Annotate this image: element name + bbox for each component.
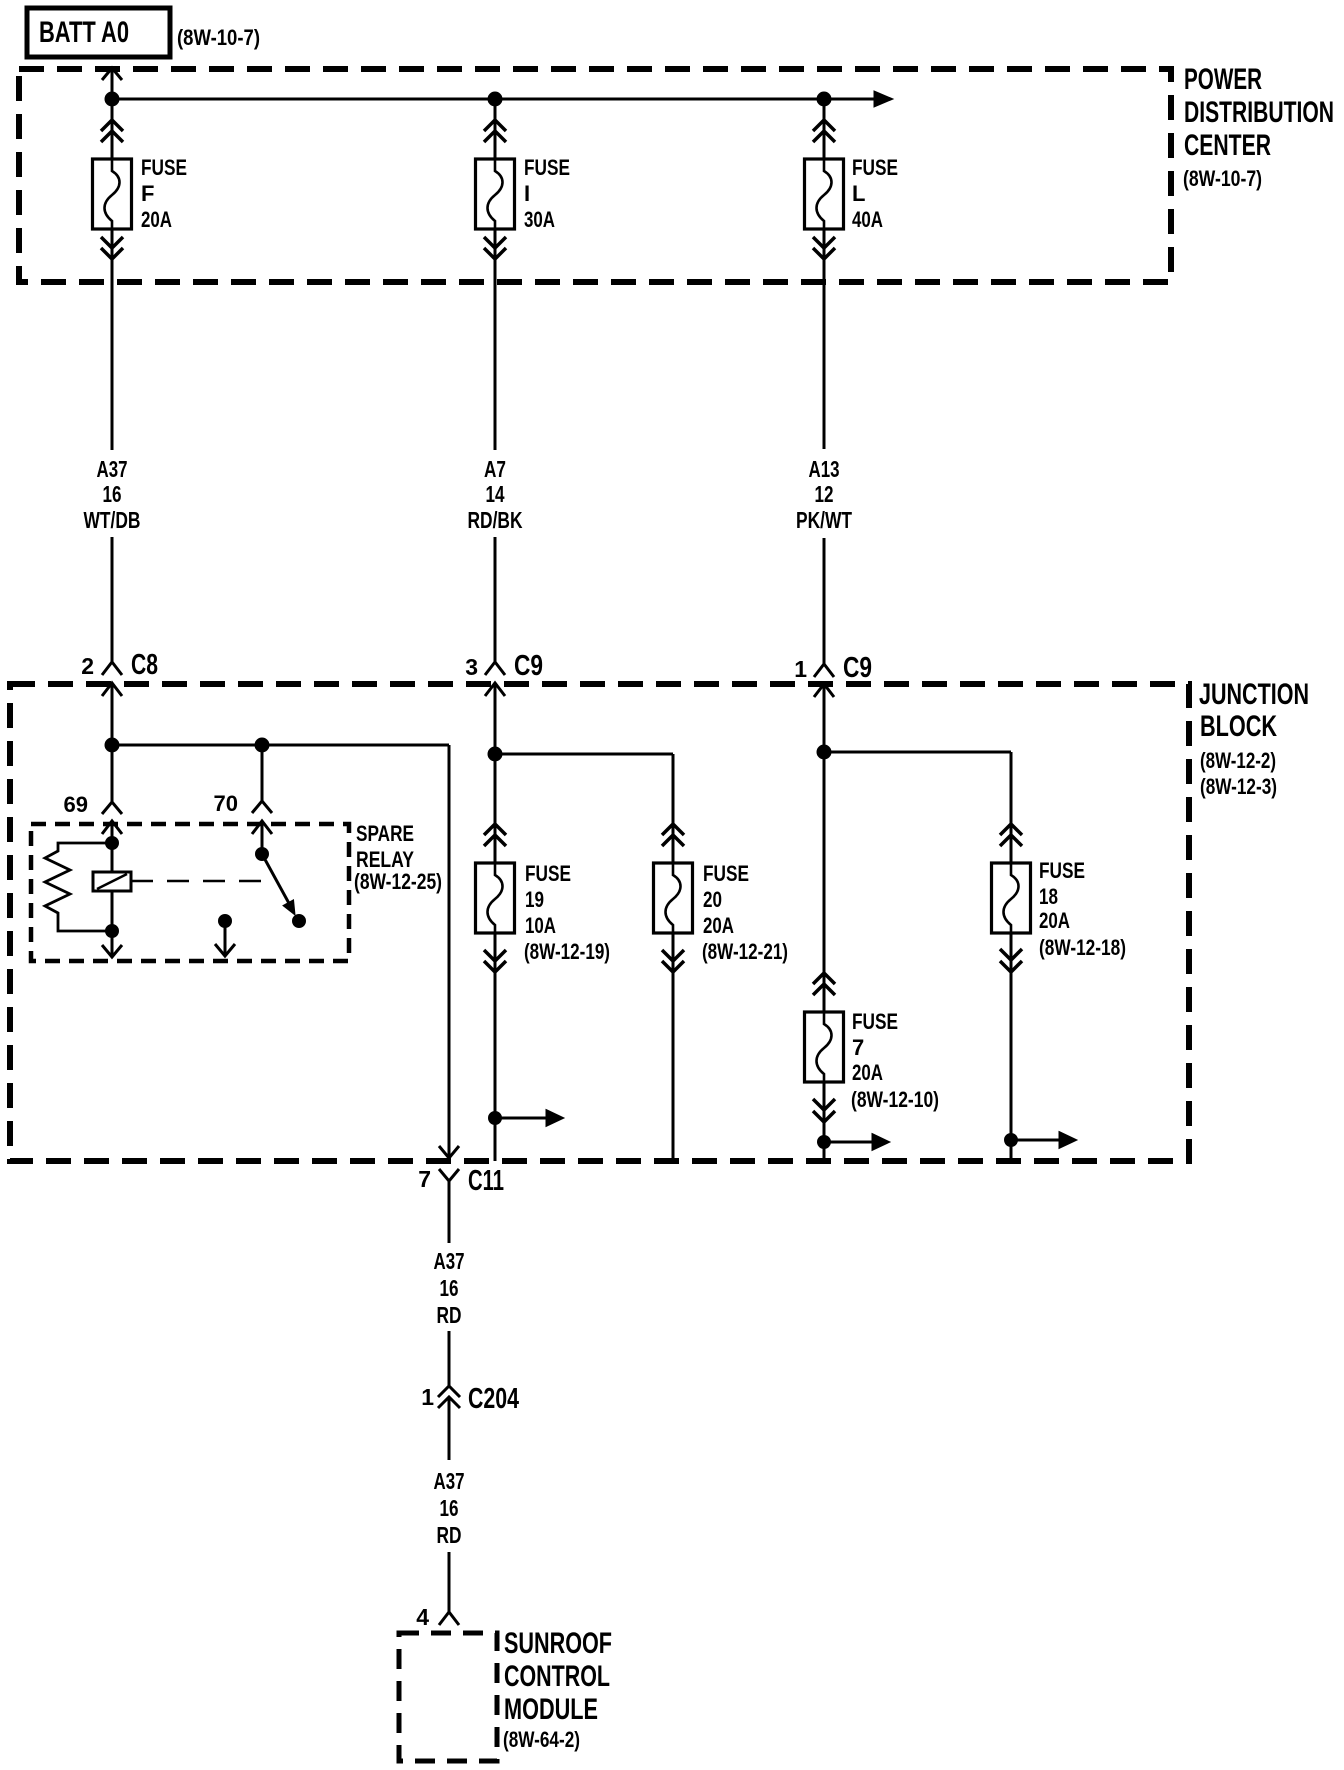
node C9 pin1 feed [817,745,831,759]
svg-text:FUSE: FUSE [525,861,571,886]
svg-text:PK/WT: PK/WT [796,507,852,533]
wire to fuse 7 [813,752,835,1012]
svg-text:RD/BK: RD/BK [468,507,523,533]
svg-text:16: 16 [103,481,122,507]
wire C11 to label [448,1181,451,1243]
svg-text:C9: C9 [514,650,543,682]
svg-text:C204: C204 [468,1383,519,1415]
connector C8 pin 2 [81,649,158,745]
fuse 18 20A [992,858,1127,960]
wire fuse 19 output arrow [495,1110,564,1127]
relay output pin arrow [215,915,235,957]
svg-text:4: 4 [416,1604,429,1630]
svg-text:A37: A37 [434,1248,465,1274]
connector arrow to BATT A0 [102,68,122,99]
wire fuse I output A7 [484,229,506,450]
wire branch to relay pin 70 [261,745,264,801]
wire feed to relay pin 69 [111,745,114,802]
connector C11 pin 7 [418,1165,504,1197]
node BATT A0 [27,8,170,57]
svg-text:(8W-10-7): (8W-10-7) [177,25,260,50]
node bus junction 3 [817,92,831,106]
svg-text:7: 7 [852,1035,864,1060]
wire A37 to C8 [111,537,114,662]
svg-text:FUSE: FUSE [703,861,749,886]
wire label to sunroof control module [448,1552,451,1612]
svg-text:FUSE: FUSE [852,155,898,180]
wire C204 to label [448,1397,451,1460]
label wire A13 12 PK/WT [796,456,852,533]
svg-text:F: F [141,181,154,206]
fuse L 40A [805,155,899,232]
node fuse 7 output branch [818,1136,831,1149]
svg-text:30A: 30A [524,207,555,232]
svg-text:(8W-12-25): (8W-12-25) [354,869,442,894]
svg-text:(8W-64-2): (8W-64-2) [503,1727,580,1752]
svg-text:SUNROOF: SUNROOF [504,1627,612,1660]
label SPARE RELAY (8W-12-25) [354,821,442,894]
node relay coil top [106,837,119,850]
junction block dashed box [10,684,1189,1161]
svg-text:(8W-12-2): (8W-12-2) [1200,748,1276,773]
wire fuse F output A37 [101,229,123,450]
svg-text:3: 3 [465,654,478,680]
svg-text:FUSE: FUSE [524,155,570,180]
power distribution center dashed box [19,69,1171,282]
connector C204 pin 1 [421,1383,519,1415]
wire fuse 20 output [662,933,684,1161]
connector C9 pin 1 [794,652,872,752]
wire bus to fuse F [101,99,123,159]
svg-text:20A: 20A [1039,908,1070,933]
fuse F 20A [93,155,188,232]
svg-text:70: 70 [214,791,238,816]
label wire A37 16 RD (lower) [434,1468,465,1548]
svg-text:18: 18 [1039,884,1058,909]
wire branch to fuse 20 [495,754,684,863]
svg-text:40A: 40A [852,207,883,232]
svg-text:WT/DB: WT/DB [84,507,141,533]
svg-text:(8W-10-7): (8W-10-7) [1183,166,1262,191]
wire to fuse 19 [484,754,506,863]
svg-text:CENTER: CENTER [1184,129,1271,162]
relay coil [93,843,131,931]
svg-text:(8W-12-3): (8W-12-3) [1200,774,1277,799]
label SUNROOF CONTROL MODULE (8W-64-2) [503,1627,612,1752]
svg-text:POWER: POWER [1184,63,1262,96]
relay pin 69 [64,792,122,843]
svg-text:16: 16 [440,1275,459,1301]
wire bus to fuse I [484,99,506,159]
relay switch blade [262,854,295,915]
wire label to C204 [448,1331,451,1386]
fuse I 30A [476,155,571,232]
svg-text:20A: 20A [703,913,734,938]
svg-text:A37: A37 [434,1468,465,1494]
wire fuse 18 output [1000,933,1022,1161]
fuse 7 20A [805,1009,940,1112]
svg-text:BLOCK: BLOCK [1200,710,1277,743]
label wire A37 16 WT/DB [84,456,141,533]
wire fuse 18 output arrow [1011,1132,1077,1149]
svg-text:2: 2 [81,653,94,679]
fuse 20 20A [654,861,789,964]
node bus junction 1 [105,92,119,106]
svg-text:19: 19 [525,887,544,912]
wire branch to fuse 18 [824,752,1022,863]
node C9 pin3 feed [488,747,502,761]
svg-text:7: 7 [418,1166,431,1192]
svg-text:I: I [524,181,530,206]
svg-text:14: 14 [486,481,505,507]
node fuse 18 output branch [1005,1134,1018,1147]
wire relay armature linkage (dashed) [131,880,268,883]
node fuse 19 output branch [489,1112,502,1125]
svg-text:20A: 20A [852,1060,883,1085]
svg-text:L: L [852,181,865,206]
svg-text:(8W-12-18): (8W-12-18) [1039,935,1126,960]
svg-text:(8W-12-21): (8W-12-21) [702,939,788,964]
svg-text:1: 1 [421,1384,434,1410]
svg-text:JUNCTION: JUNCTION [1199,678,1309,711]
wire C8 feed across to C11 drop [112,744,449,747]
svg-text:C11: C11 [468,1165,504,1197]
svg-text:C8: C8 [131,649,158,681]
svg-text:DISTRIBUTION: DISTRIBUTION [1184,96,1334,129]
svg-text:CONTROL: CONTROL [504,1660,610,1693]
svg-text:10A: 10A [525,913,556,938]
svg-text:A7: A7 [484,456,506,482]
svg-text:(8W-12-19): (8W-12-19) [524,939,610,964]
label JUNCTION BLOCK (8W-12-2) (8W-12-3) [1199,678,1309,799]
label wire A37 16 RD (upper) [434,1248,465,1328]
wire fuse 7 output [813,1082,835,1161]
node relay switch contact [293,915,306,928]
node relay switch pivot [256,848,269,861]
spare relay dashed box [31,824,349,961]
svg-text:FUSE: FUSE [1039,858,1085,883]
svg-text:(8W-12-10): (8W-12-10) [851,1087,939,1112]
wire A7 to C9 [494,537,497,662]
wire bus to fuse L [813,99,835,159]
svg-text:RD: RD [437,1522,462,1548]
svg-text:A13: A13 [809,456,840,482]
svg-text:RD: RD [437,1302,462,1328]
node spare relay pin 70 branch [255,738,269,752]
wire bus B+ [112,91,893,107]
wire A13 to C9 [823,538,826,664]
svg-text:69: 69 [64,792,88,817]
resistor relay coil suppression [45,843,112,931]
svg-text:MODULE: MODULE [504,1693,598,1726]
svg-text:FUSE: FUSE [141,155,187,180]
connector C9 pin 3 [465,650,543,754]
svg-text:FUSE: FUSE [852,1009,898,1034]
svg-text:20A: 20A [141,207,172,232]
svg-text:20: 20 [703,887,722,912]
wire drop to C11 [439,745,459,1158]
wire fuse 19 output [484,933,506,1161]
fuse 19 10A [476,861,611,964]
svg-text:C9: C9 [843,652,872,684]
svg-text:12: 12 [815,481,834,507]
label POWER DISTRIBUTION CENTER (8W-10-7) [1183,63,1334,191]
svg-text:16: 16 [440,1495,459,1521]
node relay coil bottom [106,925,119,938]
connector sunroof module pin 4 [416,1604,459,1630]
node bus junction 2 [488,92,502,106]
svg-text:BATT A0: BATT A0 [39,16,129,49]
label (8W-10-7) battery feed reference [177,25,260,50]
node junction C8 feed [105,738,119,752]
wire fuse L output A13 [813,229,835,449]
svg-text:1: 1 [794,656,807,682]
svg-text:SPARE: SPARE [356,821,414,846]
label wire A7 14 RD/BK [468,456,523,533]
wire fuse 7 output arrow [824,1134,890,1151]
svg-text:A37: A37 [97,456,128,482]
sunroof control module dashed box [399,1633,497,1761]
relay coil ground pin arrow [102,931,122,957]
relay pin 70 [214,791,272,854]
